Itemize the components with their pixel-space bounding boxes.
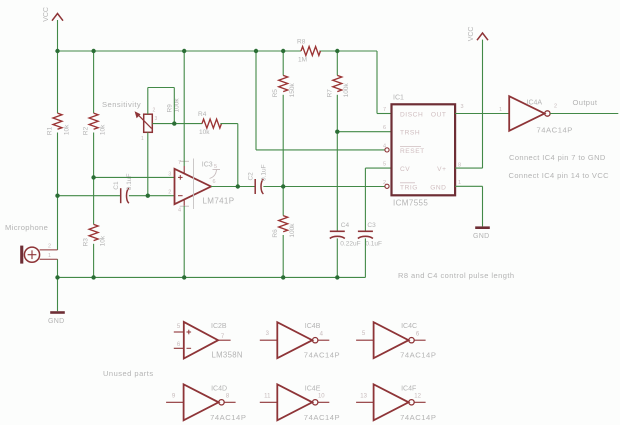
- inverter IC4B 74AC14P (unused): [260, 322, 340, 360]
- junction: [172, 121, 176, 125]
- svg-text:ICM7555: ICM7555: [393, 199, 428, 208]
- svg-text:0.1uF: 0.1uF: [126, 174, 133, 191]
- svg-text:TRSH: TRSH: [400, 130, 420, 137]
- wire C4 to ground bus: [336, 238, 338, 277]
- wire VCC drop: [57, 20, 59, 51]
- wire pot pin1 down: [147, 132, 149, 195]
- svg-text:IC4C: IC4C: [401, 323, 417, 330]
- wire R5 to bias node: [282, 95, 284, 187]
- junction: [55, 49, 59, 53]
- wire wiper to node: [152, 123, 174, 125]
- junction: [335, 275, 339, 279]
- svg-text:IC3: IC3: [202, 162, 213, 169]
- wire down to wiper node: [173, 88, 175, 124]
- svg-text:Microphone: Microphone: [5, 223, 48, 232]
- wire THRS node down to C4: [336, 132, 338, 232]
- svg-text:Connect IC4 pin 14 to VCC: Connect IC4 pin 14 to VCC: [509, 171, 610, 180]
- svg-text:2: 2: [554, 104, 557, 110]
- svg-text:R8: R8: [297, 39, 306, 46]
- svg-text:3: 3: [168, 171, 171, 177]
- svg-text:R4: R4: [198, 111, 207, 118]
- svg-text:Output: Output: [573, 98, 598, 107]
- junction: [182, 275, 186, 279]
- wire R1 top: [57, 51, 59, 113]
- resistor R3 10k: [89, 224, 98, 240]
- wire R6 to ground bus: [282, 235, 284, 277]
- svg-text:Sensitivity: Sensitivity: [102, 100, 141, 109]
- svg-text:4: 4: [178, 208, 181, 214]
- svg-text:6: 6: [383, 125, 386, 131]
- wire V+ up to VCC: [482, 40, 484, 169]
- junction: [91, 49, 95, 53]
- IC 555 timer IC1 ICM7555: [383, 95, 464, 208]
- wire op-amp V+ pin7: [183, 51, 185, 166]
- ground GND 555: [475, 226, 490, 229]
- wire R5 top: [282, 51, 284, 75]
- svg-text:C3: C3: [367, 222, 376, 229]
- inverter IC4F 74AC14P (unused): [356, 384, 436, 422]
- wire bus to DISCH: [319, 50, 377, 52]
- svg-text:VCC: VCC: [43, 7, 50, 22]
- svg-text:GND: GND: [48, 318, 64, 325]
- svg-text:4: 4: [383, 143, 386, 149]
- wire mic pin1 to ground bus: [57, 259, 59, 277]
- svg-text:10: 10: [318, 394, 325, 400]
- svg-text:74AC14P: 74AC14P: [537, 126, 573, 135]
- wire R3 to ground bus: [93, 244, 95, 278]
- svg-text:R8 and C4 control pulse length: R8 and C4 control pulse length: [398, 271, 514, 280]
- resistor R6 100k: [279, 216, 288, 232]
- svg-text:7: 7: [178, 160, 181, 166]
- svg-text:R5: R5: [272, 89, 279, 98]
- svg-text:V+: V+: [437, 166, 446, 173]
- wire R4 down to output node: [237, 124, 239, 187]
- junction: [281, 49, 285, 53]
- wire divider to op-amp + input: [94, 176, 175, 178]
- junction: [55, 194, 59, 198]
- svg-text:1M: 1M: [298, 57, 307, 64]
- svg-text:74AC14P: 74AC14P: [304, 413, 340, 422]
- inverter IC4E 74AC14P (unused): [260, 384, 340, 422]
- svg-text:R7: R7: [326, 89, 333, 98]
- wire output: [550, 113, 618, 115]
- wire node to op-amp - input: [148, 195, 175, 197]
- svg-text:74AC14P: 74AC14P: [400, 413, 436, 422]
- junction: [146, 194, 150, 198]
- svg-text:12: 12: [414, 394, 421, 400]
- wire pot top horizontal: [148, 87, 175, 89]
- op-amp IC2B LM358N (unused): [174, 322, 243, 360]
- resistor R5 150k: [279, 75, 288, 91]
- svg-text:150k: 150k: [289, 83, 296, 98]
- wire bias node to R6: [282, 187, 284, 216]
- wire R7 top: [336, 51, 338, 75]
- resistor R8 1M: [301, 47, 320, 56]
- svg-text:2: 2: [153, 108, 156, 114]
- wire op-amp V- pin4 to ground bus: [183, 206, 185, 277]
- wire bias node to TRIG pin: [283, 186, 385, 188]
- svg-text:R3: R3: [83, 238, 90, 247]
- svg-text:0.22uF: 0.22uF: [340, 240, 360, 247]
- junction: [182, 49, 186, 53]
- wire CV pin: [365, 167, 391, 169]
- junction: [91, 275, 95, 279]
- svg-text:2: 2: [383, 180, 386, 186]
- potentiometer R9 100k Sensitivity: [135, 98, 181, 142]
- svg-text:1: 1: [141, 136, 144, 142]
- svg-text:Unused parts: Unused parts: [103, 369, 154, 378]
- wire GND pin1: [455, 185, 482, 187]
- svg-text:3: 3: [461, 104, 464, 110]
- op-amp IC3 LM741P: [168, 159, 234, 214]
- svg-text:RESET: RESET: [400, 148, 425, 155]
- wire C2 to bias node: [263, 186, 283, 188]
- inverter IC4C 74AC14P (unused): [356, 322, 436, 360]
- svg-text:10k: 10k: [63, 124, 70, 135]
- svg-text:1: 1: [458, 180, 461, 186]
- capacitor C4 0.22uF: [330, 230, 345, 232]
- wire to GND symbol: [57, 277, 59, 311]
- junction: [55, 275, 59, 279]
- svg-text:C2: C2: [247, 172, 254, 181]
- svg-text:11: 11: [264, 393, 271, 399]
- power symbol VCC right: [477, 33, 488, 40]
- resistor R7 100k: [333, 75, 342, 91]
- wire R2 to node: [93, 133, 95, 178]
- svg-text:5: 5: [383, 162, 386, 168]
- wire R4 to corner: [220, 123, 237, 125]
- capacitor C2 0.1uF: [254, 179, 256, 194]
- wire OUT to IC4A: [455, 113, 509, 115]
- wire output node to C2: [238, 186, 255, 188]
- wire to TRSH pin: [337, 131, 391, 133]
- wire pot pin2 up: [147, 88, 149, 115]
- wire mic node to C1: [58, 195, 121, 197]
- resistor R4 10k: [202, 119, 221, 128]
- junction: [281, 275, 285, 279]
- svg-text:10k: 10k: [199, 129, 210, 136]
- resistor R2 10k: [89, 113, 98, 129]
- svg-text:CV: CV: [400, 166, 410, 173]
- svg-text:GND: GND: [473, 233, 489, 240]
- junction: [281, 184, 285, 188]
- wire R7 to THRS node: [336, 95, 338, 132]
- ground GND left: [50, 311, 65, 314]
- svg-text:Connect IC4 pin 7 to GND: Connect IC4 pin 7 to GND: [509, 153, 606, 162]
- svg-text:IC4D: IC4D: [211, 385, 227, 392]
- svg-text:74AC14P: 74AC14P: [400, 351, 436, 360]
- wire top VCC bus: [58, 50, 302, 52]
- wire to RESET pin: [256, 149, 385, 151]
- wire GND pin down: [482, 186, 484, 226]
- wire R2 top: [93, 51, 95, 113]
- inverter IC4D 74AC14P (unused): [166, 384, 246, 422]
- svg-text:LM741P: LM741P: [203, 197, 235, 206]
- svg-text:74AC14P: 74AC14P: [304, 351, 340, 360]
- svg-text:R1: R1: [47, 126, 54, 135]
- svg-text:3: 3: [155, 116, 158, 122]
- wire to DISCH pin: [377, 113, 392, 115]
- wire DISCH vertical: [376, 51, 378, 114]
- svg-text:10k: 10k: [99, 124, 106, 135]
- svg-text:R2: R2: [83, 126, 90, 135]
- capacitor C3 0.1uF: [358, 230, 373, 232]
- svg-text:2: 2: [48, 244, 51, 250]
- wire bus to RESET vertical: [255, 51, 257, 150]
- svg-text:2: 2: [168, 190, 171, 196]
- svg-text:5: 5: [214, 164, 217, 170]
- junction: [335, 49, 339, 53]
- svg-text:IC4A: IC4A: [527, 100, 543, 107]
- svg-text:IC2B: IC2B: [211, 323, 227, 330]
- svg-text:VCC: VCC: [468, 27, 475, 42]
- svg-text:7: 7: [383, 107, 386, 113]
- svg-text:100k: 100k: [289, 223, 296, 238]
- junction: [91, 175, 95, 179]
- svg-text:TRIG: TRIG: [400, 184, 418, 191]
- junction: [236, 184, 240, 188]
- wire node to R3: [93, 177, 95, 224]
- svg-text:1: 1: [48, 253, 51, 259]
- wire node to mic pin2: [57, 196, 59, 250]
- svg-text:13: 13: [360, 393, 367, 399]
- wire op-amp output: [211, 186, 238, 188]
- svg-text:1: 1: [499, 107, 502, 113]
- svg-text:IC1: IC1: [393, 95, 404, 102]
- junction: [254, 49, 258, 53]
- svg-text:C1: C1: [113, 181, 120, 190]
- svg-text:74AC14P: 74AC14P: [210, 413, 246, 422]
- svg-text:C4: C4: [341, 222, 350, 229]
- wire C1 to node: [129, 195, 148, 197]
- wire V+ pin8: [455, 167, 482, 169]
- capacitor C1 0.1uF: [120, 188, 122, 203]
- junction: [335, 130, 339, 134]
- wire node to R4: [174, 123, 202, 125]
- inverter IC4A 74AC14P: [509, 96, 573, 134]
- svg-text:IC4B: IC4B: [305, 323, 321, 330]
- wire CV down to C3: [364, 168, 366, 231]
- svg-text:LM358N: LM358N: [212, 351, 243, 360]
- resistor R1 10k: [53, 113, 62, 129]
- microphone MIC1: [5, 223, 58, 264]
- svg-text:6: 6: [213, 179, 216, 185]
- wire C3 to ground bus: [364, 238, 366, 277]
- svg-text:IC4F: IC4F: [401, 385, 416, 392]
- svg-text:GND: GND: [430, 184, 446, 191]
- svg-text:10k: 10k: [99, 235, 106, 246]
- svg-text:DISCH: DISCH: [400, 112, 423, 119]
- svg-text:0.1uF: 0.1uF: [365, 240, 382, 247]
- svg-text:R6: R6: [272, 229, 279, 238]
- svg-text:OUT: OUT: [431, 112, 447, 119]
- power symbol VCC left: [52, 14, 63, 21]
- svg-text:0.1uF: 0.1uF: [261, 164, 268, 181]
- wire ground bus: [58, 276, 366, 278]
- svg-text:100k: 100k: [343, 83, 350, 98]
- svg-text:R9: R9: [167, 104, 174, 113]
- svg-text:IC4E: IC4E: [305, 385, 321, 392]
- wire R1 bottom to node: [57, 133, 59, 196]
